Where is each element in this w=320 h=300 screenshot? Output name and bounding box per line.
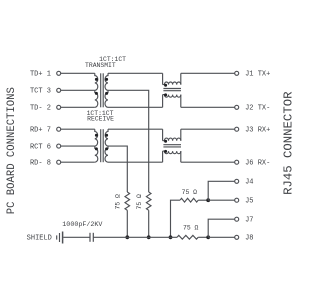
pin RCT 6 terminal	[57, 144, 61, 148]
svg-text:TCT 3: TCT 3	[30, 88, 51, 96]
wire choke L1 to J1	[181, 72, 235, 74]
transformer T1 secondary phase dot (top)	[105, 78, 108, 81]
common-mode choke L1 core	[163, 89, 181, 91]
junction R2/bus	[147, 235, 151, 239]
wire RCT to T2 primary center tap	[61, 145, 95, 147]
svg-text:1000pF/2KV: 1000pF/2KV	[62, 221, 102, 229]
common-mode choke L1 left legs	[162, 73, 164, 107]
resistor R2 75 ohm (TX center tap termination)	[146, 192, 151, 210]
common-mode choke L2 left legs	[162, 129, 164, 162]
wire T1 secondary bottom to choke L1	[108, 106, 163, 108]
junction node J7/J8	[206, 235, 210, 239]
wire R1 to shield bus	[126, 210, 128, 237]
capacitor C1 plates	[90, 233, 93, 242]
transformer T1 primary phase dot (top)	[95, 78, 98, 81]
wire T1 secondary top to choke L1	[108, 72, 163, 74]
svg-text:TD+ 1: TD+ 1	[30, 71, 51, 79]
common-mode choke L2 top winding	[163, 138, 181, 141]
transformer T1 primary winding	[95, 73, 98, 107]
pin J7 terminal	[235, 217, 239, 221]
svg-text:J7: J7	[245, 216, 253, 224]
transformer T2 secondary winding	[105, 129, 108, 162]
pin J4 terminal	[235, 179, 239, 183]
common-mode choke L1 phase dot (bottom)	[164, 93, 167, 96]
common-mode choke L2 phase dot (bottom)	[164, 150, 167, 153]
wire T1 secondary center tap to R2 (net TXCT)	[108, 90, 149, 192]
transformer T1 secondary phase dot (lower half)	[105, 92, 108, 95]
common-mode choke L2 core	[163, 145, 181, 147]
resistor R3 75 ohm (J4/J5 termination)	[180, 198, 198, 202]
svg-text:75 Ω: 75 Ω	[136, 194, 143, 210]
wire R2 to shield bus	[148, 210, 150, 237]
svg-text:J5: J5	[245, 198, 253, 206]
wire R4 right lead to node J7/J8	[198, 236, 208, 238]
transformer T2 core	[101, 129, 104, 162]
svg-text:PC BOARD CONNECTIONS: PC BOARD CONNECTIONS	[6, 87, 18, 214]
svg-text:RJ45 CONNECTOR: RJ45 CONNECTOR	[282, 91, 296, 195]
common-mode choke L1 right legs	[180, 73, 182, 107]
transformer T1 primary phase dot (lower half)	[95, 92, 98, 95]
wire choke L1 to J2	[181, 106, 235, 108]
pin RD+ 7 terminal	[57, 127, 61, 131]
svg-text:75 Ω: 75 Ω	[183, 224, 199, 231]
svg-text:SHIELD: SHIELD	[27, 235, 52, 243]
svg-text:J1 TX+: J1 TX+	[245, 71, 270, 79]
pin J3 terminal	[235, 127, 239, 131]
wire RD- to T2 primary bottom	[61, 161, 95, 163]
wire choke L2 to J3	[181, 128, 235, 130]
wire T2 secondary top to choke L2	[108, 128, 163, 130]
wire T2 secondary bottom to choke L2	[108, 161, 163, 163]
svg-text:75 Ω: 75 Ω	[182, 189, 198, 196]
wire T2 secondary center tap to R1 (net RXCT)	[108, 146, 127, 192]
svg-text:J3 RX+: J3 RX+	[245, 127, 270, 135]
svg-text:75 Ω: 75 Ω	[115, 194, 122, 210]
wire node to J4	[208, 181, 235, 200]
transformer T2 primary phase dot (top)	[95, 134, 98, 137]
svg-text:J2 TX-: J2 TX-	[245, 105, 270, 113]
pin J2 terminal	[235, 105, 239, 109]
common-mode choke L1 phase dot (top)	[164, 84, 167, 87]
wire node to J8	[208, 236, 235, 238]
pin J1 terminal	[235, 71, 239, 75]
pin TD+ 1 terminal	[57, 71, 61, 75]
svg-text:J4: J4	[245, 179, 253, 187]
svg-text:RD+ 7: RD+ 7	[30, 127, 51, 135]
svg-text:J8: J8	[245, 235, 253, 243]
wire TCT to T1 primary center tap	[61, 89, 95, 91]
junction R1/bus	[125, 235, 129, 239]
resistor R4 75 ohm (J7/J8 termination)	[177, 235, 198, 239]
side label: RJ45 CONNECTOR	[282, 91, 296, 195]
junction bus riser/bus	[169, 235, 173, 239]
pin TD- 2 terminal	[57, 105, 61, 109]
wire RD+ to T2 primary top	[61, 128, 95, 130]
svg-text:RCT 6: RCT 6	[30, 144, 51, 152]
common-mode choke L2 bottom winding	[163, 151, 181, 154]
wire R3 left lead to bus riser	[171, 200, 181, 237]
svg-text:RECEIVE: RECEIVE	[87, 116, 114, 123]
wire TD- to T1 primary bottom	[61, 106, 95, 108]
svg-text:TRANSMIT: TRANSMIT	[85, 62, 116, 69]
common-mode choke L2 phase dot (top)	[164, 140, 167, 143]
wire shield to capacitor C1	[63, 236, 90, 238]
shield terminal symbol (three bars)	[57, 232, 63, 244]
wire node to J7	[208, 219, 235, 237]
wire R3 right lead to node J4/J5	[198, 199, 208, 201]
transformer T2 primary phase dot (lower half)	[95, 147, 98, 150]
common-mode choke L1 top winding	[163, 82, 181, 85]
wire TD+ to T1 primary top	[61, 72, 95, 74]
resistor R1 75 ohm (RX center tap termination)	[125, 192, 130, 210]
common-mode choke L2 right legs	[180, 129, 182, 162]
junction node J4/J5	[206, 198, 210, 202]
side label: PC BOARD CONNECTIONS	[6, 87, 18, 214]
svg-text:J6 RX-: J6 RX-	[245, 160, 270, 168]
wire node to J5	[208, 199, 235, 201]
transformer T2 secondary phase dot (lower half)	[105, 147, 108, 150]
transformer T1 secondary winding	[105, 73, 108, 107]
wire shield bus (cap to R4)	[93, 236, 177, 238]
transformer T2 primary winding	[95, 129, 98, 162]
wire choke L2 to J6	[181, 161, 235, 163]
transformer T1 core	[101, 73, 104, 107]
svg-text:RD- 8: RD- 8	[30, 160, 51, 168]
svg-text:TD- 2: TD- 2	[30, 105, 51, 113]
pin J5 terminal	[235, 198, 239, 202]
pin TCT 3 terminal	[57, 88, 61, 92]
pin J8 terminal	[235, 235, 239, 239]
common-mode choke L1 bottom winding	[163, 95, 181, 98]
pin J6 terminal	[235, 160, 239, 164]
pin RD- 8 terminal	[57, 160, 61, 164]
transformer T2 secondary phase dot (top)	[105, 134, 108, 137]
